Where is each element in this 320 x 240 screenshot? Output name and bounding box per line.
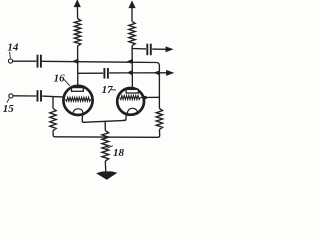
- wire: from C2 to grid of tube 16: [42, 96, 64, 97]
- svg-text:14: 14: [7, 41, 19, 53]
- resistor R2 (plate load of tube 17): [129, 21, 135, 45]
- wire: line B from plate lead of tube 16 to capacitor C3: [78, 72, 103, 74]
- wire: tube 16 cathode lead down and corner: [82, 115, 85, 123]
- tube 17 grid zigzag: [120, 96, 141, 100]
- wire: tube 17 grid lead out right side to vertical line: [140, 96, 159, 98]
- wire: lead from cathode rail down to resistor 18: [104, 121, 106, 130]
- label 17 pointer dash: [111, 89, 116, 91]
- svg-text:16: 16: [54, 72, 66, 84]
- capacitor C3 (cross-coupling capacitor): [104, 68, 108, 79]
- label 15 pointer tick: [7, 98, 9, 102]
- wire: line B from C3 across to lower output arrow: [109, 72, 167, 74]
- wire: output line from C4 to upper output arrow: [152, 48, 167, 50]
- capacitor C2 (input 15 coupling capacitor): [38, 90, 42, 101]
- wire: cathode rail joining both cathodes: [83, 120, 126, 122]
- wire: lead from resistor 18 to ground: [104, 161, 107, 172]
- resistor R3 (grid resistor of tube 16): [50, 109, 56, 131]
- svg-text:18: 18: [113, 147, 125, 159]
- label 16 pointer tick: [64, 79, 70, 85]
- tube 16 envelope circle: [63, 86, 92, 115]
- wire: plate lead of tube 16 down to plate: [77, 46, 79, 88]
- wire: vertical line from line A corner down to grid resistor R4: [158, 71, 160, 108]
- wire: R3 bottom lead corner to bias rail: [53, 131, 55, 137]
- wire: input line from terminal 15 to capacitor C2: [13, 95, 36, 97]
- junction arrowhead on line A at plate lead of tube 17: [128, 60, 132, 64]
- upper output arrow: [166, 47, 172, 51]
- label 18 pointer tick: [106, 146, 113, 149]
- resistor 18 (common cathode resistor): [102, 131, 109, 161]
- wire: plate lead of tube 17 down to plate: [131, 46, 133, 90]
- resistor R4 (grid resistor of tube 17): [156, 109, 162, 130]
- wire: output line from plate of tube 17 to capacitor C4: [132, 48, 146, 50]
- ground symbol (earth arrow): [97, 172, 117, 180]
- wire: R4 bottom lead corner to bias rail: [55, 129, 160, 137]
- lower output arrow: [167, 71, 173, 75]
- wire: grid-resistor lead down from junction: [52, 97, 54, 109]
- junction arrowhead on line B at grid line of tube 17: [155, 71, 159, 75]
- terminal 15 (input terminal circle): [9, 94, 13, 98]
- tube 17 plate (anode) rectangle: [126, 89, 138, 93]
- label 14 pointer tick: [9, 52, 12, 58]
- wire: input line from terminal 14 to coupling capacitor: [13, 60, 37, 62]
- resistor R1 (plate load of tube 16): [74, 19, 80, 47]
- tube 16 cathode arc: [73, 109, 83, 116]
- power supply arrow above resistor R1: [75, 1, 80, 7]
- svg-text:15: 15: [3, 103, 15, 115]
- junction dot where grid lead crosses tube 17 envelope: [144, 96, 147, 99]
- tube 17 cathode arc: [127, 108, 137, 115]
- capacitor C4 (upper output coupling capacitor): [147, 44, 151, 56]
- wire: tube 17 cathode lead down and corner: [123, 114, 127, 120]
- junction arrowhead on line B at plate lead of tube 17: [128, 71, 132, 75]
- tube 16 grid zigzag: [65, 97, 91, 101]
- capacitor C1 (input 14 coupling capacitor): [38, 55, 41, 68]
- power supply arrow above resistor R2: [130, 2, 135, 7]
- tube 16 plate (anode) rectangle: [72, 88, 84, 92]
- junction arrowhead on line A at plate lead of tube 16: [74, 60, 78, 64]
- terminal 14 (input terminal circle): [8, 59, 12, 63]
- tube 17 envelope circle: [117, 88, 144, 115]
- wire: line A from C1 across to right side, corner down toward grid of tube 17: [42, 61, 159, 71]
